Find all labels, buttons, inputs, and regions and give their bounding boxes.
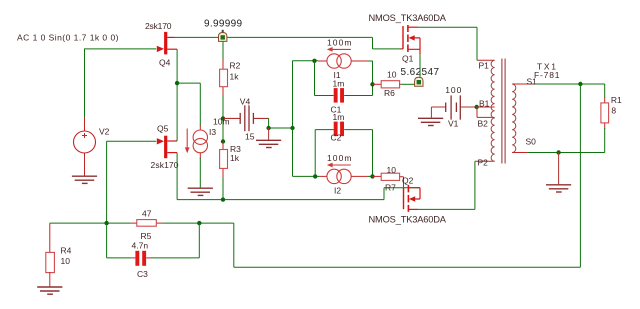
current source I1: [318, 37, 368, 80]
node dot V1 to B1: [475, 105, 479, 109]
resistor R5: [131, 209, 163, 242]
ground below S0: [546, 153, 571, 193]
voltage source V2: [74, 118, 110, 176]
svg-text:8: 8: [611, 106, 616, 116]
svg-text:1k: 1k: [230, 72, 240, 82]
svg-text:P2: P2: [478, 158, 489, 168]
node dot R7 tap: [370, 174, 374, 178]
svg-text:9.99999: 9.99999: [204, 19, 242, 30]
wire feedback rail: [50, 222, 234, 224]
svg-text:Q1: Q1: [402, 54, 414, 64]
svg-text:15: 15: [245, 132, 255, 142]
MOSFET Q1: [369, 13, 447, 78]
svg-text:V4: V4: [240, 96, 251, 106]
svg-text:B2: B2: [478, 119, 489, 129]
resistor R7: [373, 165, 404, 193]
svg-text:B1: B1: [479, 99, 490, 109]
wire R3 bottom to feedback rail: [222, 178, 224, 200]
wire I3 to ground: [199, 158, 201, 188]
ground below R4: [37, 287, 62, 294]
svg-text:C3: C3: [137, 269, 148, 279]
wire Q5 drain down and right: [177, 153, 420, 200]
wire top link to I1: [293, 60, 319, 62]
wire S0 net: [527, 128, 605, 153]
svg-text:2sk170: 2sk170: [151, 160, 179, 170]
wire Q4 drain to rail: [175, 37, 401, 49]
svg-text:I3: I3: [209, 127, 216, 137]
wire C3 loop: [107, 223, 200, 258]
svg-text:V1: V1: [448, 119, 459, 129]
wire R2 to R3: [222, 95, 224, 142]
node dot R6 tap: [370, 82, 374, 86]
wire branch to I3 top: [177, 83, 200, 125]
resistor R3: [220, 142, 242, 180]
node dot S0 ground tap: [556, 150, 560, 154]
svg-text:P1: P1: [479, 60, 490, 70]
svg-text:1m: 1m: [333, 79, 345, 89]
svg-text:4.7n: 4.7n: [132, 241, 149, 251]
svg-text:F-781: F-781: [534, 70, 560, 80]
node dot feedback right: [197, 221, 201, 225]
node dot V4 ground: [266, 126, 270, 130]
svg-text:Q4: Q4: [159, 57, 171, 67]
node dot R3 top: [221, 139, 225, 143]
wire vertical A: [292, 61, 294, 177]
wire bottom rail: [234, 84, 581, 267]
svg-text:100m: 100m: [327, 153, 352, 163]
svg-text:S0: S0: [526, 137, 537, 147]
svg-text:10: 10: [387, 165, 397, 175]
svg-text:R5: R5: [141, 231, 152, 241]
battery V1: [431, 85, 476, 129]
ground below V2: [72, 176, 97, 183]
wire S1 net: [536, 84, 605, 98]
svg-text:NMOS_TK3A60DA: NMOS_TK3A60DA: [369, 13, 447, 23]
wire C1 right / R6 tap: [344, 61, 372, 96]
svg-text:R4: R4: [61, 246, 72, 256]
battery V4: [224, 96, 269, 141]
wire V4 right to ground node: [269, 118, 293, 128]
wire Q1 drain rail to P1: [418, 27, 477, 60]
svg-text:AC 1 0 Sin(0 1.7 1k 0 0): AC 1 0 Sin(0 1.7 1k 0 0): [17, 32, 119, 42]
svg-text:2sk170: 2sk170: [145, 21, 172, 31]
capacitor C3: [131, 241, 151, 280]
transistor Q4: [145, 21, 177, 67]
wire C2 right: [344, 130, 372, 177]
wire bottom link: [293, 175, 320, 177]
node dot R3 bottom junction: [221, 197, 225, 201]
wire C2 left: [315, 130, 334, 177]
ground below I3: [188, 188, 213, 195]
resistor R4: [46, 223, 72, 286]
svg-text:C2: C2: [331, 133, 342, 143]
svg-text:10: 10: [387, 70, 397, 80]
svg-text:R1: R1: [611, 95, 622, 105]
node dot I1 left: [312, 59, 316, 63]
resistor R1: [601, 95, 622, 129]
svg-text:S1: S1: [527, 77, 538, 87]
ground below V1 left: [418, 107, 443, 126]
meter probe 9.99999: [204, 19, 242, 42]
svg-text:100m: 100m: [327, 37, 352, 47]
wire Q2 drain to P2: [418, 161, 475, 209]
svg-text:R2: R2: [230, 61, 241, 71]
svg-text:Q2: Q2: [402, 175, 414, 185]
svg-text:10: 10: [61, 256, 71, 266]
capacitor C2: [331, 112, 345, 143]
wire rail down to R2: [222, 42, 224, 63]
svg-text:V2: V2: [99, 127, 110, 137]
current source I2: [319, 153, 368, 196]
MOSFET Q2: [369, 175, 447, 224]
svg-text:I2: I2: [334, 186, 341, 196]
node dot I2 left: [313, 174, 317, 178]
resistor R2: [220, 60, 241, 96]
svg-text:100: 100: [445, 85, 461, 95]
node dot feedback left: [104, 221, 108, 225]
svg-text:1m: 1m: [333, 112, 345, 122]
transistor Q5: [151, 124, 179, 171]
svg-text:NMOS_TK3A60DA: NMOS_TK3A60DA: [369, 214, 447, 224]
svg-text:1k: 1k: [230, 153, 240, 163]
ground below V4 node: [256, 128, 281, 148]
meter probe 5.62547: [401, 67, 440, 86]
current source I3: [185, 117, 230, 160]
wire R6 to probe: [401, 83, 415, 85]
node dot S1 bottom rail: [578, 82, 582, 86]
node dot vertical A tap: [290, 126, 294, 130]
svg-text:R7: R7: [385, 183, 396, 193]
wire Q5 gate to feedback: [107, 141, 157, 223]
node dot I3 branch: [175, 81, 179, 85]
resistor R6: [373, 70, 401, 99]
wire V2 to Q4 gate: [85, 49, 157, 119]
transformer TX1: [475, 59, 560, 168]
wire C1 left: [315, 61, 334, 96]
svg-text:47: 47: [142, 209, 152, 219]
svg-text:Q5: Q5: [157, 124, 169, 134]
svg-text:10m: 10m: [213, 117, 230, 127]
capacitor C1: [331, 79, 345, 115]
svg-text:R6: R6: [384, 88, 395, 98]
node dot V4 tap: [221, 116, 225, 120]
wire Q4 source to Q5 source: [176, 49, 178, 141]
